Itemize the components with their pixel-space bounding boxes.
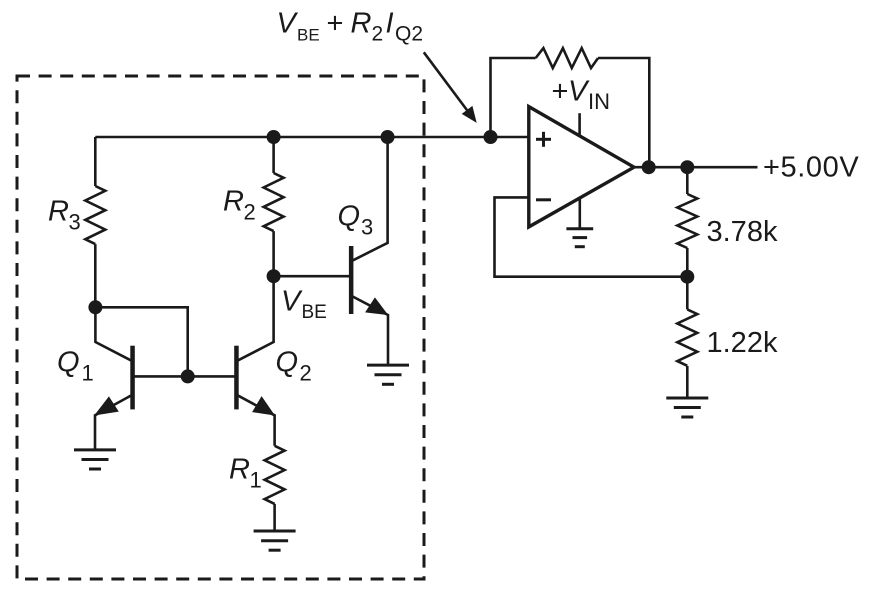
feedback resistor [536,48,598,68]
svg-text:3: 3 [69,210,81,235]
node H (divider top) [680,160,694,174]
annotation arrow [424,52,477,123]
wire op-amp output [634,166,758,169]
wire Q1-Q2 base bus [133,375,237,378]
svg-text:R: R [223,186,244,218]
label R2 [223,186,256,225]
op-amp ground pin [578,198,581,229]
node B (base bus junction) [181,369,195,383]
svg-text:BE: BE [302,302,327,323]
resistor R1 [265,446,285,531]
node A (R3 bottom / Q1 collector) [88,300,102,314]
label Q1 [57,346,94,385]
svg-text:1: 1 [82,361,94,386]
ground (divider bottom) [666,398,708,417]
node G (output/feedback) [642,160,656,174]
wire node A to base drop [95,307,187,376]
ground (Q1 emitter) [74,450,116,469]
feedback wire (top loop) [491,58,536,137]
wire top bus [95,136,529,139]
svg-text:V: V [568,75,590,107]
op-amp + input sign [536,132,551,147]
svg-text:IN: IN [588,89,610,114]
label R3 [48,195,81,234]
svg-text:V: V [281,286,303,318]
transistor Q2 [234,276,275,446]
wire V_BE node to Q3 base [274,275,349,278]
dashed box (bandgap cell outline) [17,76,424,579]
svg-text:Q: Q [338,201,361,233]
label V_BE [281,286,327,323]
ground (op-amp) [566,229,593,247]
svg-text:R: R [229,454,250,486]
svg-text:3.78k: 3.78k [707,216,778,248]
op-amp U1 [529,107,634,227]
label Q2 [276,346,312,385]
label R1 [229,454,262,493]
svg-text:+: + [552,75,569,107]
svg-text:1: 1 [250,468,262,493]
svg-text:+5.00V: +5.00V [763,152,859,184]
node I (divider mid / feedback tap) [680,270,694,284]
svg-text:R: R [351,8,372,40]
wire - input feedback [495,197,688,276]
svg-text:R: R [48,195,69,227]
svg-text:+: + [327,8,344,40]
ground (Q3 emitter) [367,365,409,384]
svg-text:Q: Q [276,346,299,378]
svg-text:I: I [386,8,394,40]
svg-text:1.22k: 1.22k [707,327,778,359]
node F (op-amp + input) [484,130,498,144]
wire feedback to output [598,58,649,167]
svg-text:2: 2 [372,23,384,46]
ground (R1 bottom) [254,531,296,550]
svg-text:2: 2 [300,361,312,386]
resistor R3 [85,137,105,307]
node C (R2 top on bus) [267,130,281,144]
svg-text:BE: BE [297,26,320,45]
resistor R2 [264,137,284,276]
svg-text:3: 3 [361,214,373,239]
label V_BE + R2 I_Q2 annotation [277,8,424,46]
node E (Q3 collector on bus) [381,130,395,144]
resistor 1.22k [677,277,697,398]
label Q3 [338,201,374,240]
op-amp - input sign [536,198,551,201]
svg-text:V: V [277,8,299,40]
label +V_IN [552,75,611,114]
svg-text:Q: Q [57,346,80,378]
+V_IN power pin [578,113,581,136]
svg-text:2: 2 [244,200,256,225]
resistor 3.78k [677,167,697,277]
transistor Q1 [94,307,135,450]
transistor Q3 [349,137,388,365]
svg-text:Q2: Q2 [395,23,423,46]
node D (V_BE node) [267,269,281,283]
